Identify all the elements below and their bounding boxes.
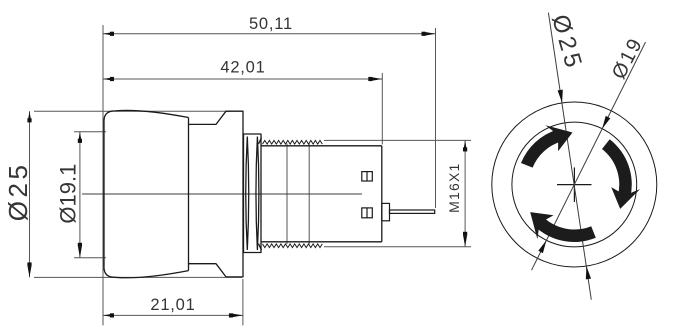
svg-text:42,01: 42,01 (220, 59, 265, 77)
svg-text:Ø25: Ø25 (3, 162, 33, 222)
svg-text:21,01: 21,01 (150, 296, 195, 314)
svg-text:Ø19.1: Ø19.1 (55, 164, 80, 224)
svg-text:M16X1: M16X1 (446, 163, 462, 213)
svg-text:50,11: 50,11 (249, 15, 293, 33)
